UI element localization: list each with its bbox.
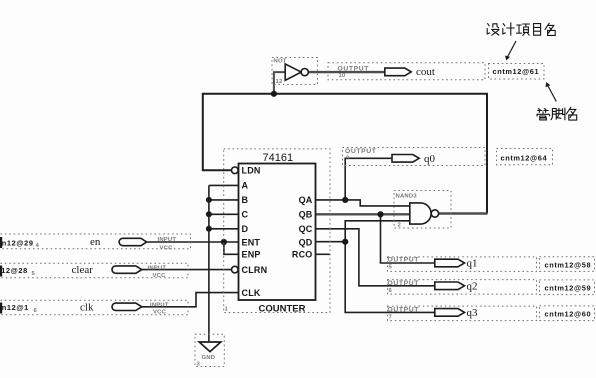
counter pin QD [299, 237, 313, 247]
svg-text:cntm12@58: cntm12@58 [545, 260, 592, 269]
output pin symbol q1 [388, 257, 465, 271]
svg-text:QA: QA [299, 195, 313, 205]
svg-text:C: C [242, 210, 249, 220]
output port q1 dashed box [388, 257, 595, 272]
node junction QB [377, 211, 383, 217]
svg-text:n12@29: n12@29 [2, 238, 34, 247]
wire QB to NAND input 2 [316, 213, 410, 215]
svg-text:RCO: RCO [292, 250, 313, 260]
svg-text:5: 5 [32, 271, 36, 277]
counter pin QC [299, 224, 313, 234]
pin label cntm12@64 [501, 153, 548, 162]
pin label cntm12@58 [545, 260, 592, 269]
svg-text:NAND3: NAND3 [396, 194, 418, 200]
node junction D [206, 226, 212, 232]
counter pin D [242, 224, 249, 234]
svg-text:OUTPUT: OUTPUT [388, 257, 420, 264]
counter pin LDN (bubble) [232, 166, 261, 176]
counter U1 74161 body [239, 152, 316, 314]
counter pin QB [299, 210, 313, 220]
wire feedback top horizontal (NAND output net to LDN) [203, 94, 487, 214]
wire QA jog to NAND input 1 [345, 200, 410, 206]
wire A stub [209, 184, 239, 186]
ground symbol dashed box [195, 334, 224, 366]
nand gate U3 NAND3 [396, 194, 439, 229]
svg-text:QD: QD [299, 237, 313, 247]
net name q1 [467, 258, 478, 270]
svg-text:VCC: VCC [153, 273, 167, 279]
not gate U2 dashed box [272, 58, 318, 85]
output port q0 dashed box [343, 148, 486, 166]
net name cout [416, 66, 435, 78]
svg-text:INPUT: INPUT [148, 265, 167, 271]
svg-text:5: 5 [389, 265, 393, 271]
char 管 [537, 108, 550, 120]
wire QD branch down to q3 [345, 242, 435, 313]
net name clear [72, 264, 94, 276]
counter pin A [242, 181, 249, 191]
svg-text:VCC: VCC [153, 310, 167, 316]
svg-text:LDN: LDN [242, 166, 261, 176]
output port cout dashed box [328, 63, 485, 80]
svg-text:CLK: CLK [242, 288, 261, 298]
wire QA junction up to q0 [345, 158, 392, 200]
svg-text:B: B [242, 195, 249, 205]
svg-text:cout: cout [416, 66, 435, 78]
wire ENT branch to ENP [224, 242, 239, 254]
svg-text:12: 12 [276, 79, 283, 85]
wire QD junction up to NAND input 3 [345, 221, 410, 242]
svg-text:clk: clk [80, 302, 94, 314]
pin label cntm12@61 dashed box [489, 64, 545, 80]
svg-text:INPUT: INPUT [158, 237, 177, 243]
counter U1 74161 dashed box [224, 149, 330, 313]
pin label 12@28 [0, 266, 36, 277]
wire en to ENT [147, 241, 239, 243]
counter pin CLK [242, 288, 261, 298]
svg-text:cntm12@64: cntm12@64 [501, 153, 548, 162]
counter pin CLRN (bubble) [232, 265, 268, 275]
wire NOT input tap [274, 72, 286, 95]
svg-text:9: 9 [346, 156, 350, 162]
svg-text:6: 6 [389, 288, 393, 294]
net name en [90, 236, 101, 248]
pin label cntm12@64 dashed box [497, 149, 553, 165]
svg-text:4: 4 [36, 243, 40, 249]
char 目 [534, 24, 541, 36]
not gate U2 [274, 59, 309, 86]
counter pin ENT [242, 237, 261, 247]
output pin symbol q2 [388, 280, 465, 294]
pin label cntm12@59 [545, 284, 592, 293]
svg-text:OUTPUT: OUTPUT [388, 280, 420, 287]
svg-text:INPUT: INPUT [150, 303, 169, 309]
annotation callout arrow to pin name label [546, 82, 557, 102]
char 脚 [551, 108, 565, 120]
svg-text:GND: GND [202, 355, 216, 361]
counter pin QA [299, 195, 313, 205]
wire QD to junction [316, 241, 346, 243]
svg-text:3: 3 [197, 362, 201, 368]
counter pin C [242, 210, 249, 220]
svg-text:clear: clear [72, 264, 94, 276]
svg-text:en: en [90, 236, 101, 248]
output pin symbol q0 [345, 148, 419, 162]
ground [197, 342, 221, 368]
node junction QD [342, 239, 348, 245]
counter pin ENP [242, 250, 261, 260]
node junction C [206, 211, 212, 217]
svg-text:cntm12@59: cntm12@59 [545, 284, 592, 293]
svg-text:D: D [242, 224, 249, 234]
output port q2 dashed box [388, 280, 595, 295]
svg-text:2: 2 [398, 223, 402, 229]
svg-text:n12@1: n12@1 [2, 303, 29, 312]
pin label cntm12@61 [493, 67, 540, 76]
counter pin B [242, 195, 249, 205]
svg-text:NOT: NOT [274, 59, 287, 65]
node junction NOT tap [271, 91, 277, 97]
wire B stub [209, 199, 239, 201]
input port en dashed box [0, 234, 191, 249]
pin label n12@1 [0, 303, 38, 315]
nand gate U3 NAND3 dashed box [394, 191, 451, 229]
svg-text:CLRN: CLRN [242, 265, 268, 275]
wire NOT output to cout [308, 71, 385, 73]
annotation callout arrow to project name label [505, 41, 516, 61]
input port clk dashed box [0, 300, 188, 315]
svg-text:ENP: ENP [242, 250, 261, 260]
svg-text:q2: q2 [467, 281, 478, 293]
svg-text:QB: QB [299, 210, 313, 220]
wire RCO stub [316, 253, 331, 255]
annotation chinese text 管脚名 (pin name), hand drawn strokes [537, 107, 577, 120]
svg-text:VCC: VCC [160, 246, 174, 252]
svg-text:cntm12@60: cntm12@60 [545, 309, 592, 318]
net name clk [80, 302, 94, 314]
wire QC to q2 [316, 229, 435, 286]
char 名 [545, 23, 555, 35]
input pin symbol clk [112, 303, 169, 316]
svg-text:OUTPUT: OUTPUT [338, 65, 370, 72]
char 设 [487, 24, 499, 36]
input port clear dashed box [0, 263, 188, 278]
svg-text:q0: q0 [424, 153, 436, 165]
wire QB branch down to q1 [381, 214, 435, 263]
svg-text:12@28: 12@28 [1, 266, 28, 275]
pin label n12@29 [0, 237, 40, 249]
counter pin RCO [292, 250, 313, 260]
net name q3 [467, 307, 479, 319]
output pin symbol cout [338, 65, 412, 79]
svg-text:QC: QC [299, 224, 313, 234]
svg-text:7: 7 [389, 315, 393, 321]
pin label cntm12@60 [545, 309, 592, 318]
char 计 [503, 23, 514, 35]
svg-text:OUTPUT: OUTPUT [388, 307, 420, 314]
node junction B [206, 197, 212, 203]
counter pin number 1 gray [225, 307, 229, 313]
wire D stub [209, 228, 239, 230]
svg-text:q1: q1 [467, 258, 478, 270]
svg-text:ENT: ENT [242, 237, 261, 247]
annotation chinese text 设计项目名 (design project name), hand drawn strokes [487, 23, 555, 36]
node junction ENT [221, 239, 227, 245]
output pin symbol q3 [388, 307, 465, 321]
svg-text:6: 6 [34, 308, 38, 314]
svg-text:cntm12@61: cntm12@61 [493, 67, 540, 76]
wire QA to junction [316, 199, 346, 201]
node junction QA [342, 197, 348, 203]
output port q3 dashed box [388, 306, 595, 321]
svg-text:OUTPUT: OUTPUT [345, 148, 377, 155]
svg-text:10: 10 [339, 73, 346, 79]
wire clk to CLK [142, 293, 239, 307]
wire C stub [209, 213, 239, 215]
svg-text:74161: 74161 [263, 152, 294, 164]
char 名 (second) [566, 107, 576, 120]
wire clear to CLRN [142, 269, 232, 271]
svg-text:q3: q3 [467, 307, 479, 319]
input pin symbol clear [112, 265, 166, 279]
svg-text:1: 1 [225, 307, 229, 313]
input pin symbol en [119, 237, 176, 252]
svg-text:A: A [242, 181, 249, 191]
svg-text:COUNTER: COUNTER [259, 303, 306, 314]
net name q0 [424, 153, 436, 165]
wire A B C D tie-down vertical to GND [208, 185, 210, 342]
char 项 [517, 24, 530, 35]
net name q2 [467, 281, 478, 293]
wire NAND output segment [439, 212, 488, 214]
